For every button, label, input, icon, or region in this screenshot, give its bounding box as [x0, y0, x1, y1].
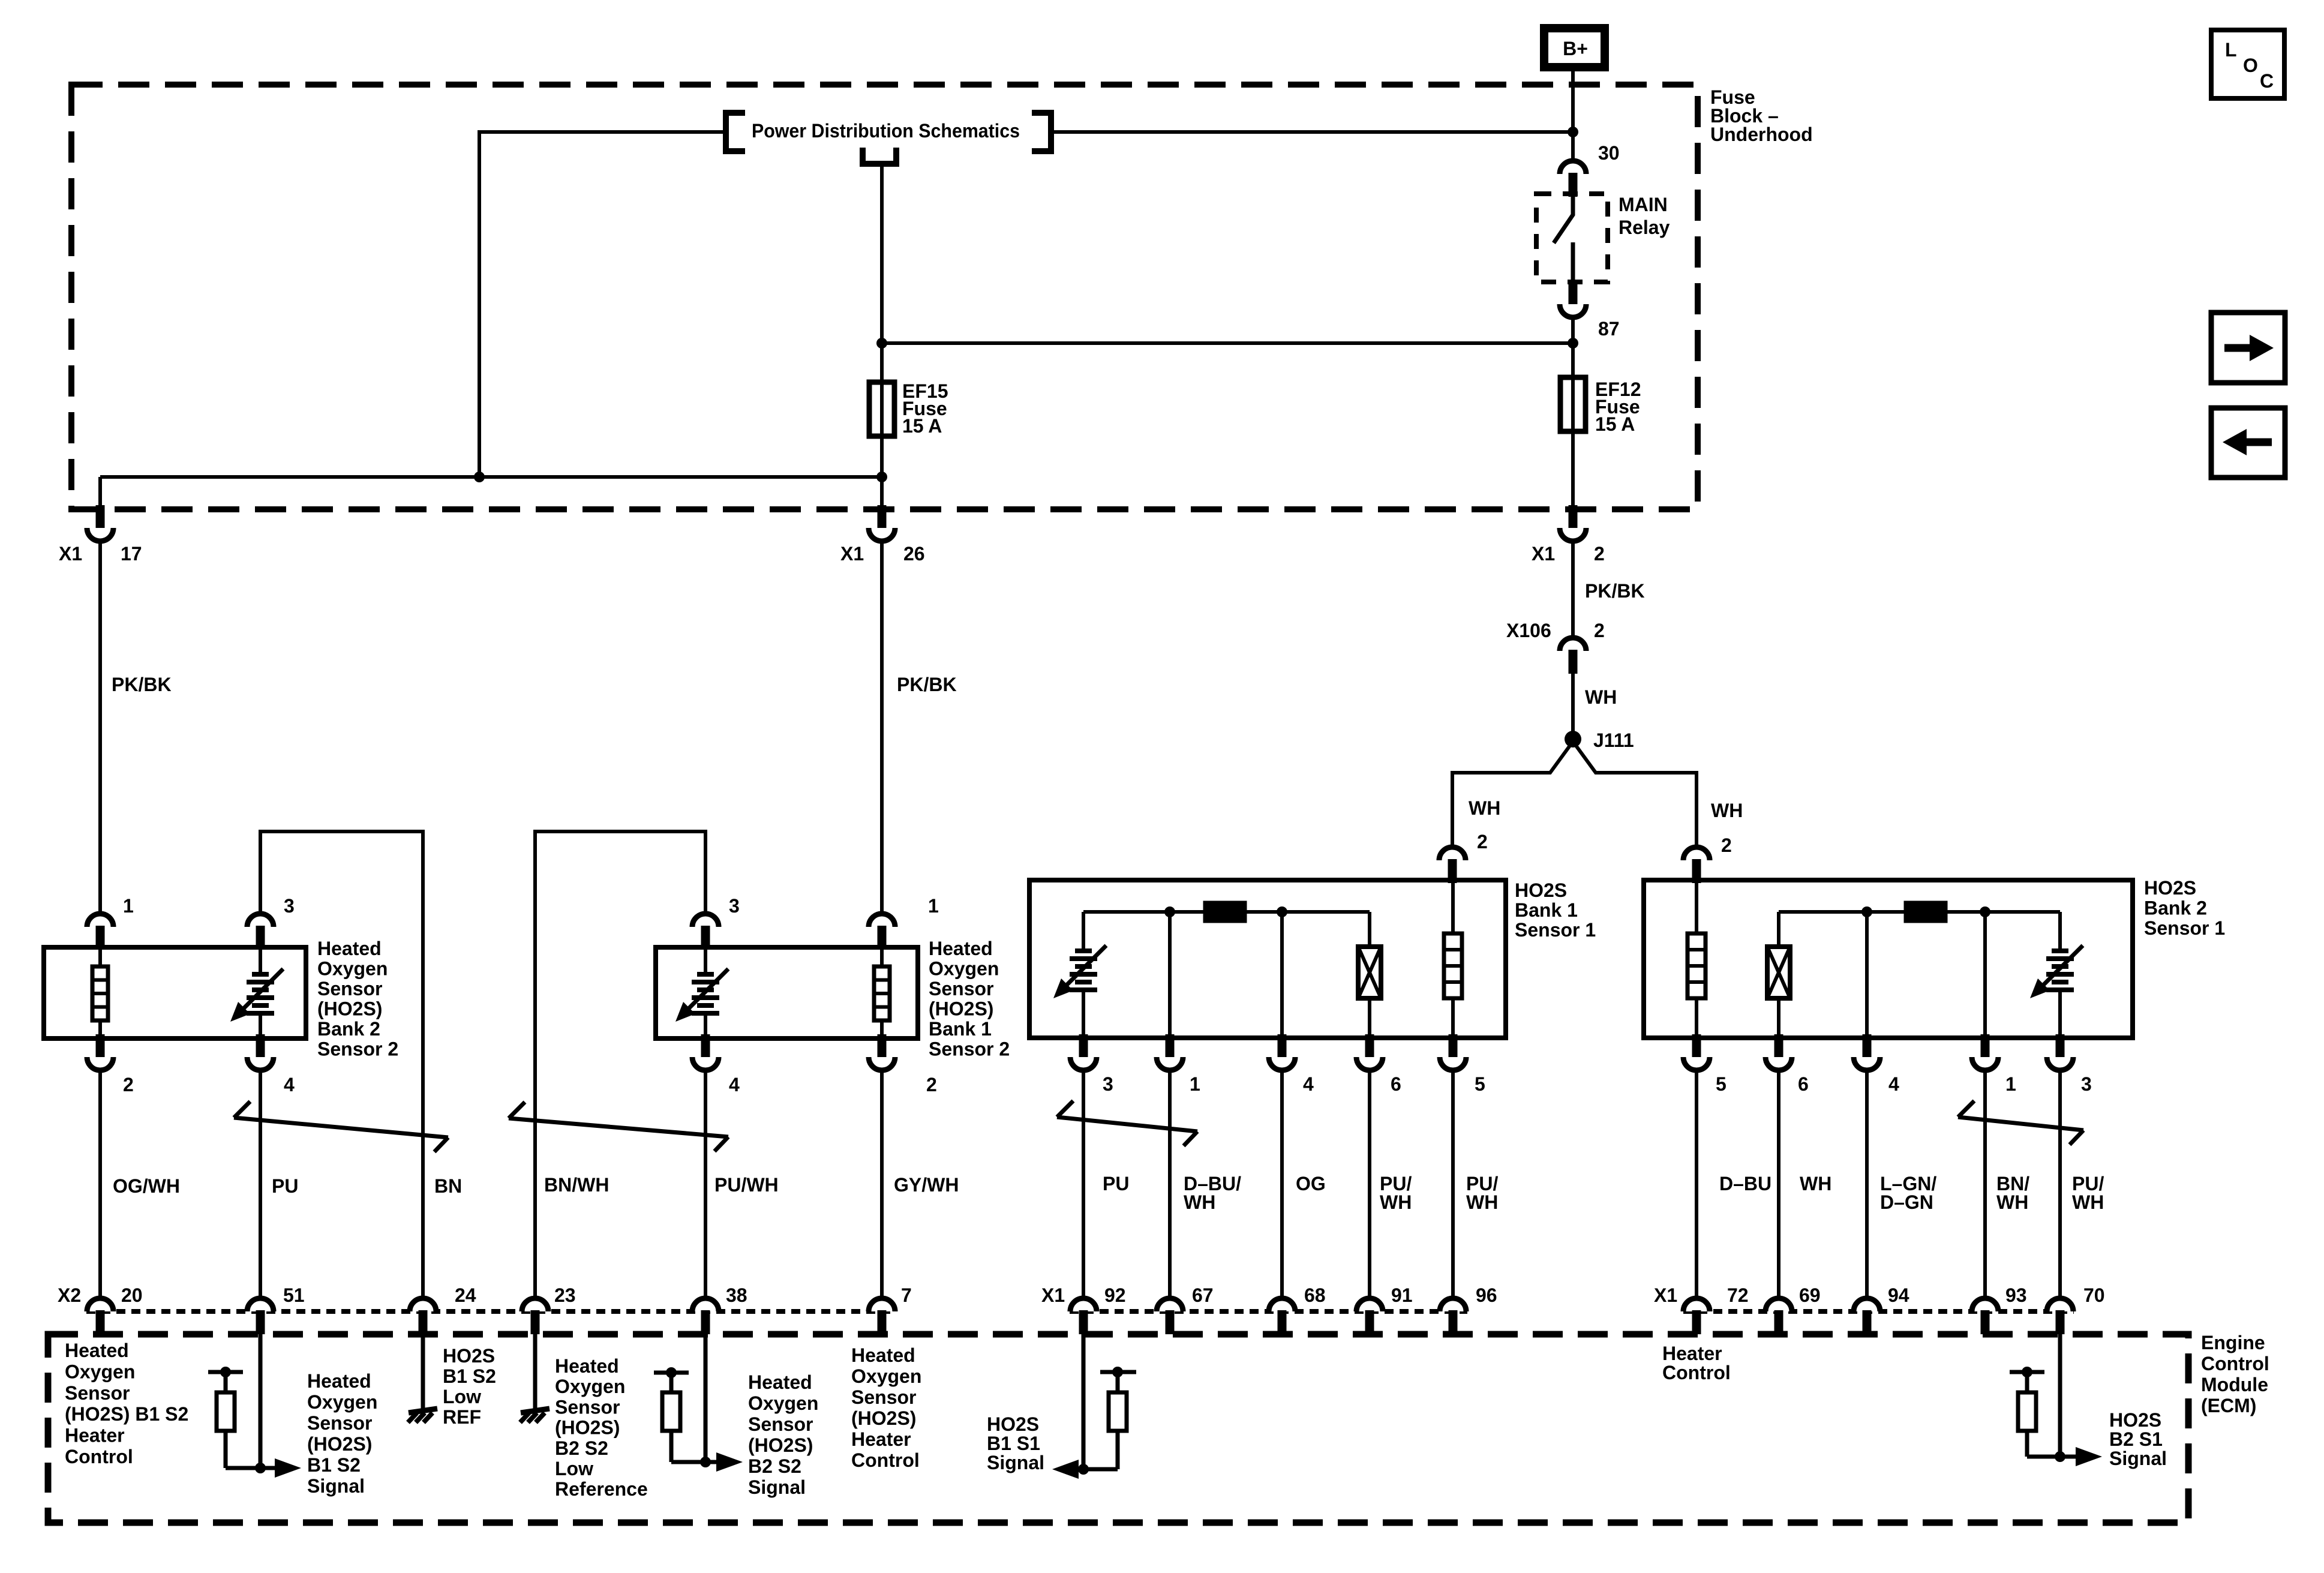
wire PU pin4 to X2 51: [259, 1070, 262, 1299]
svg-text:(HO2S) B1 S2: (HO2S) B1 S2: [65, 1403, 188, 1425]
label PU/WH pin5: [1466, 1173, 1498, 1213]
svg-text:Oxygen: Oxygen: [748, 1392, 818, 1414]
svg-text:17: 17: [121, 543, 142, 565]
svg-text:PU: PU: [272, 1175, 298, 1197]
svg-text:B1 S2: B1 S2: [307, 1454, 361, 1476]
wire PK/BK middle down to sensor pin 1: [880, 541, 884, 915]
connector pin 5 B1S1: [1440, 1034, 1466, 1070]
resistor pin38 circuit: [669, 1373, 674, 1394]
wire from drop bracket down through EF15 to fuse block exit: [880, 164, 884, 509]
twisted pair symbol left pair: [234, 1101, 448, 1152]
svg-text:4: 4: [1303, 1073, 1314, 1095]
label X1 26: [840, 543, 925, 565]
wire PU/WH pin5 to X1 96: [1451, 1070, 1455, 1299]
fuse EF12: [1560, 377, 1586, 431]
svg-text:1: 1: [123, 895, 134, 917]
bracket right of Power Distribution Schematics: [1032, 113, 1051, 151]
svg-text:Engine: Engine: [2201, 1332, 2265, 1353]
node junction power distribution line at B+ wire: [1568, 127, 1578, 137]
svg-text:Sensor: Sensor: [307, 1412, 372, 1434]
connector pin 1 B1S2: [869, 914, 895, 950]
svg-text:Signal: Signal: [2109, 1448, 2167, 1469]
svg-text:Oxygen: Oxygen: [307, 1391, 377, 1413]
wire L-GN/D-GN pin4 to X1 94: [1865, 1070, 1869, 1299]
connector X1 17: [87, 505, 113, 541]
wire pin4 drop B1S1: [1280, 912, 1284, 1038]
connector pin 87 arc: [1560, 281, 1586, 317]
sensor box HO2S Bank 2 Sensor 1: [1644, 880, 2133, 1038]
svg-text:Sensor: Sensor: [65, 1382, 130, 1404]
wire resistor to node pin92: [1083, 1467, 1118, 1472]
connector pin 4 B2S1: [1854, 1034, 1880, 1070]
svg-text:PK/BK: PK/BK: [112, 674, 172, 695]
node rail junction pin92: [1112, 1367, 1123, 1377]
connector pin 6 B1S1: [1356, 1034, 1383, 1070]
svg-text:4: 4: [1888, 1073, 1899, 1095]
wire J111 right branch to HO2S B2S1 pin 2: [1573, 742, 1697, 847]
label D-BU/WH: [1184, 1173, 1241, 1213]
node rail junction pin38: [666, 1367, 677, 1378]
svg-text:Oxygen: Oxygen: [555, 1376, 625, 1397]
connector pin 5 B2S1: [1683, 1034, 1710, 1070]
wire loop pin3 B1S2 up over to BN/WH drop: [535, 831, 705, 1298]
svg-text:D–GN: D–GN: [1880, 1191, 1933, 1213]
twisted pair symbol B2S1 pair: [1958, 1101, 2083, 1145]
svg-text:Sensor: Sensor: [851, 1386, 916, 1408]
svg-text:HO2S: HO2S: [987, 1413, 1039, 1435]
sensor box HO2S Bank 1 Sensor 1: [1029, 880, 1506, 1038]
svg-text:(HO2S): (HO2S): [851, 1407, 916, 1429]
svg-text:2: 2: [1477, 831, 1488, 852]
svg-text:Control: Control: [851, 1449, 920, 1471]
svg-text:Low: Low: [443, 1386, 481, 1407]
node bus junction pin1 B1S1: [1164, 906, 1175, 917]
svg-text:HO2S: HO2S: [1515, 879, 1567, 901]
svg-text:3: 3: [729, 895, 740, 917]
svg-text:Relay: Relay: [1619, 217, 1670, 238]
connector pin 6 B2S1: [1765, 1034, 1792, 1070]
svg-text:4: 4: [729, 1074, 740, 1095]
wire GY/WH pin2 to X2 7: [880, 1070, 884, 1299]
wire PU/WH pin4 to X2 38: [704, 1070, 707, 1299]
svg-text:B2 S1: B2 S1: [2109, 1428, 2163, 1450]
svg-text:Signal: Signal: [748, 1476, 806, 1498]
connector pin 1 B1S1: [1157, 1034, 1183, 1070]
relay switch lower contact: [1571, 242, 1575, 282]
connector X pin 94: [1854, 1298, 1880, 1334]
piezo element B2S1: [1777, 912, 1780, 948]
label HO2S Bank 1 Sensor 1: [1515, 879, 1596, 941]
svg-text:5: 5: [1716, 1073, 1727, 1095]
connector X106 2: [1560, 638, 1586, 674]
svg-text:Heater: Heater: [65, 1425, 125, 1446]
svg-text:WH: WH: [1469, 797, 1500, 819]
svg-text:REF: REF: [443, 1406, 481, 1428]
svg-text:MAIN: MAIN: [1619, 194, 1668, 215]
resistor internal B2S1: [1906, 903, 1945, 921]
svg-text:38: 38: [726, 1284, 747, 1306]
svg-text:GY/WH: GY/WH: [894, 1174, 959, 1196]
svg-text:Heated: Heated: [555, 1355, 619, 1377]
connector pin 3 B1S2: [692, 914, 719, 950]
svg-text:D–BU: D–BU: [1719, 1173, 1771, 1194]
connector X pin 93: [1972, 1298, 1998, 1334]
svg-text:30: 30: [1598, 142, 1620, 164]
label MAIN Relay: [1619, 194, 1670, 238]
svg-text:(HO2S): (HO2S): [317, 998, 382, 1020]
connector pin 2 B1S2: [869, 1034, 895, 1070]
svg-text:PU/WH: PU/WH: [714, 1174, 779, 1196]
svg-text:Module: Module: [2201, 1374, 2268, 1395]
label HO2S B1 S1 Signal text: [987, 1413, 1044, 1473]
svg-text:WH: WH: [1711, 800, 1743, 821]
svg-text:2: 2: [123, 1074, 134, 1095]
connector X pin 20: [87, 1298, 113, 1334]
connector pin 3 B2S2: [247, 914, 274, 950]
ground HO2S B2 S2 low reference: [520, 1409, 550, 1422]
svg-text:20: 20: [121, 1284, 143, 1306]
label PU/WH pin6: [1380, 1173, 1412, 1213]
svg-text:X1: X1: [59, 543, 82, 565]
svg-text:WH: WH: [2072, 1191, 2104, 1213]
svg-text:96: 96: [1476, 1284, 1497, 1306]
svg-text:Power Distribution Schematics: Power Distribution Schematics: [752, 120, 1020, 142]
svg-text:Sensor: Sensor: [929, 978, 993, 999]
svg-text:2: 2: [1594, 543, 1605, 565]
svg-text:Underhood: Underhood: [1710, 124, 1813, 145]
node junction at relay 87 feed: [1568, 338, 1578, 349]
svg-text:92: 92: [1104, 1284, 1126, 1306]
connector pin 2 B1S1: [1439, 847, 1466, 883]
connector pin 30 arc: [1560, 161, 1586, 197]
svg-text:Control: Control: [1662, 1362, 1731, 1383]
svg-text:Heated: Heated: [748, 1371, 812, 1393]
node bus junction pin1 B2S1: [1980, 906, 1990, 917]
svg-text:WH: WH: [1466, 1191, 1498, 1213]
label X1 17: [59, 543, 142, 565]
svg-text:1: 1: [928, 895, 939, 917]
internal bus B1S1: [1083, 910, 1370, 914]
svg-text:X2: X2: [58, 1284, 81, 1306]
svg-text:Sensor 1: Sensor 1: [1515, 919, 1596, 941]
svg-text:Oxygen: Oxygen: [317, 958, 388, 980]
internal bus B2S1: [1779, 910, 2060, 914]
sensing element B1S2 with arrow: [704, 948, 707, 975]
svg-text:Bank 1: Bank 1: [1515, 899, 1578, 921]
svg-text:Heated: Heated: [851, 1344, 915, 1366]
arrow HO2S B2 S1 signal: [2060, 1455, 2077, 1459]
label HO2S B1 S2 Signal text: [307, 1370, 377, 1497]
resistor branch rail pin38: [654, 1371, 689, 1375]
svg-text:91: 91: [1391, 1284, 1413, 1306]
wire OG pin4 to X1 68: [1280, 1070, 1284, 1299]
svg-text:WH: WH: [1585, 686, 1617, 708]
connector row X1 right dotted line: [1683, 1309, 2074, 1314]
svg-text:15 A: 15 A: [1595, 413, 1635, 435]
svg-text:(HO2S): (HO2S): [929, 998, 993, 1020]
svg-text:23: 23: [554, 1284, 576, 1306]
connector X pin 69: [1765, 1298, 1792, 1334]
svg-text:Control: Control: [2201, 1353, 2269, 1374]
connector pin 4 B1S2: [692, 1034, 719, 1070]
wire resistor to node pin70: [2027, 1455, 2060, 1459]
svg-text:Oxygen: Oxygen: [929, 958, 999, 980]
wire PK/BK left down to sensor pin 1: [98, 541, 102, 915]
svg-text:94: 94: [1888, 1284, 1909, 1306]
svg-text:OG: OG: [1296, 1173, 1326, 1194]
svg-text:51: 51: [283, 1284, 305, 1306]
svg-text:3: 3: [1103, 1073, 1113, 1095]
svg-text:Heater: Heater: [851, 1428, 911, 1450]
fuse block - underhood dashed box: [71, 85, 1698, 509]
wire BN/WH pin1 to X1 93: [1983, 1070, 1987, 1299]
connector X pin 70: [2047, 1298, 2073, 1334]
splice J111: [1565, 731, 1581, 748]
wire relay 87 feed to EF15 branch: [882, 341, 1573, 345]
connector X pin 92: [1070, 1298, 1097, 1334]
svg-text:B1 S2: B1 S2: [443, 1365, 496, 1387]
sensing element B1S1 with arrow: [1082, 912, 1085, 952]
label HO2S B2 S2 Signal text: [748, 1371, 818, 1498]
wire pin4 drop B2S1: [1865, 912, 1869, 1038]
svg-text:HO2S: HO2S: [443, 1345, 495, 1367]
svg-text:X106: X106: [1506, 620, 1551, 641]
svg-text:X1: X1: [840, 543, 864, 565]
sensor box HO2S Bank 1 Sensor 2: [656, 947, 918, 1038]
svg-text:Heated: Heated: [307, 1370, 371, 1392]
wire power distribution line left segment with drop to bus: [479, 132, 723, 477]
svg-text:L: L: [2225, 39, 2237, 61]
svg-text:PK/BK: PK/BK: [1585, 580, 1645, 602]
connector pin 2 B2S1: [1683, 847, 1710, 883]
wire power distribution line right segment: [1053, 130, 1573, 134]
svg-text:Sensor 2: Sensor 2: [929, 1038, 1010, 1060]
svg-text:C: C: [2260, 70, 2274, 92]
heater element B1S1 from pin2: [1451, 881, 1455, 935]
connector X1 2: [1560, 505, 1586, 541]
svg-text:WH: WH: [1996, 1191, 2028, 1213]
ECM dashed box: [48, 1334, 2188, 1523]
node rail junction pin51: [220, 1367, 231, 1377]
svg-text:Control: Control: [65, 1446, 133, 1467]
svg-text:PU: PU: [1103, 1173, 1129, 1194]
node bus junction pin4 B2S1: [1861, 906, 1872, 917]
svg-text:Bank 1: Bank 1: [929, 1018, 992, 1040]
resistor branch rail pin92: [1100, 1370, 1136, 1374]
svg-text:BN/WH: BN/WH: [544, 1174, 609, 1196]
resistor pin92 circuit: [1116, 1372, 1120, 1394]
wire left exit drop: [98, 477, 102, 509]
piezo element B1S1: [1368, 912, 1371, 948]
label Heater Control right: [1662, 1343, 1731, 1383]
wire PK/BK right down to X106: [1571, 541, 1575, 639]
wire D-BU pin5 to X1 72: [1695, 1070, 1698, 1299]
label BN/WH B2S1: [1996, 1173, 2029, 1213]
fuse EF15: [869, 382, 894, 436]
svg-text:26: 26: [903, 543, 925, 565]
svg-text:B2 S2: B2 S2: [555, 1437, 608, 1459]
svg-text:5: 5: [1475, 1073, 1485, 1095]
node signal junction pin51: [255, 1463, 266, 1473]
label X1 2: [1532, 543, 1605, 565]
label X106 2: [1506, 620, 1605, 641]
wire pin38 inside ECM: [704, 1320, 708, 1462]
svg-text:BN: BN: [434, 1175, 462, 1197]
wire PU pin3 to X1 92: [1082, 1070, 1085, 1299]
wire pin51 inside ECM: [259, 1320, 263, 1468]
svg-text:1: 1: [2005, 1073, 2016, 1095]
svg-text:2: 2: [1721, 834, 1732, 856]
label HO2S B2 S1 Signal text: [2109, 1409, 2167, 1469]
wire pin70 inside ECM: [2058, 1320, 2062, 1457]
label L-GN/D-GN: [1880, 1173, 1936, 1213]
bracket left of Power Distribution Schematics: [726, 113, 745, 151]
svg-text:X1: X1: [1654, 1284, 1677, 1306]
back arrow box: [2211, 408, 2285, 478]
svg-text:67: 67: [1192, 1284, 1214, 1306]
wire PU/WH pin6 to X1 91: [1368, 1070, 1371, 1299]
wire resistor to node pin38: [671, 1460, 705, 1464]
wire D-BU/WH pin1 to X1 67: [1168, 1070, 1172, 1299]
connector pin 4 B1S1: [1269, 1034, 1295, 1070]
connector X pin 96: [1440, 1298, 1466, 1334]
heater element B2S2: [98, 948, 102, 968]
resistor pin70 circuit: [2025, 1372, 2029, 1394]
label EF15 Fuse 15 A: [902, 380, 948, 437]
wire pin1 drop B1S1: [1168, 912, 1172, 1038]
wire PU/WH pin3 to X1 70: [2058, 1070, 2062, 1299]
svg-text:3: 3: [284, 895, 295, 917]
svg-text:WH: WH: [1380, 1191, 1412, 1213]
arrow HO2S B2 S2 signal: [705, 1460, 719, 1464]
connector X pin 67: [1157, 1298, 1183, 1334]
svg-text:Sensor 2: Sensor 2: [317, 1038, 398, 1060]
label Heated Oxygen Sensor HO2S Bank 1 Sensor 2: [929, 938, 1010, 1060]
node rail junction pin70: [2022, 1367, 2032, 1377]
arrow HO2S B1 S2 signal: [260, 1466, 277, 1470]
svg-text:Sensor: Sensor: [555, 1396, 620, 1418]
svg-text:O: O: [2243, 55, 2258, 76]
ground HO2S B1 S2 low ref: [408, 1409, 437, 1422]
label HO2S Heater Control text: [851, 1344, 921, 1471]
relay MAIN dashed box: [1536, 194, 1608, 282]
label HO2S B1 S2 Heater Control: [65, 1340, 188, 1467]
connector X pin 23: [522, 1298, 548, 1334]
arrow HO2S B1 S1 signal: [1075, 1467, 1083, 1472]
svg-text:2: 2: [1594, 620, 1605, 641]
svg-text:X1: X1: [1041, 1284, 1065, 1306]
svg-text:J111: J111: [1593, 730, 1634, 751]
resistor branch rail pin51: [208, 1370, 243, 1374]
wire WH down to J111: [1571, 671, 1575, 733]
connector row X2 dotted line: [86, 1309, 894, 1314]
svg-text:4: 4: [284, 1074, 295, 1095]
fuse block label: [1710, 86, 1813, 145]
twisted pair symbol B1S1 pair: [1057, 1101, 1197, 1146]
label PU/WH B2S1: [2072, 1173, 2104, 1213]
svg-text:B1 S1: B1 S1: [987, 1433, 1040, 1454]
svg-text:Oxygen: Oxygen: [851, 1365, 921, 1387]
svg-text:68: 68: [1304, 1284, 1326, 1306]
connector X pin 68: [1269, 1298, 1295, 1334]
label Engine Control Module ECM: [2201, 1332, 2269, 1416]
wire pin1 drop B2S1: [1983, 912, 1987, 1038]
wire OG/WH pin2 to X2 20: [98, 1070, 102, 1299]
resistor branch rail pin70: [2010, 1370, 2044, 1374]
svg-text:24: 24: [455, 1284, 476, 1306]
wire loop pin3 B2S2 up over text to BN drop: [260, 831, 423, 1298]
svg-text:Bank 2: Bank 2: [317, 1018, 380, 1040]
resistor internal B1S1: [1205, 903, 1245, 921]
svg-text:Bank 2: Bank 2: [2144, 897, 2207, 919]
connector X pin 72: [1683, 1298, 1710, 1334]
svg-text:HO2S: HO2S: [2144, 877, 2196, 899]
svg-text:Reference: Reference: [555, 1478, 648, 1500]
svg-text:Sensor: Sensor: [748, 1413, 813, 1435]
node bus junction pin4 B1S1: [1277, 906, 1287, 917]
connector X pin 38: [692, 1298, 719, 1334]
label HO2S B1 S2 Low REF: [443, 1345, 496, 1428]
svg-text:(HO2S): (HO2S): [555, 1417, 620, 1439]
svg-text:93: 93: [2005, 1284, 2027, 1306]
wire resistor to node pin51: [226, 1466, 260, 1470]
svg-text:WH: WH: [1800, 1173, 1831, 1194]
svg-text:72: 72: [1727, 1284, 1749, 1306]
LOC reference box: [2211, 30, 2284, 98]
svg-text:Heater: Heater: [1662, 1343, 1722, 1364]
svg-text:(ECM): (ECM): [2201, 1395, 2256, 1416]
label HO2S Bank 2 Sensor 1: [2144, 877, 2225, 939]
connector pin 1 B2S1: [1972, 1034, 1998, 1070]
node junction EF15 wire at bus: [876, 472, 887, 482]
svg-text:OG/WH: OG/WH: [113, 1175, 180, 1197]
svg-text:X1: X1: [1532, 543, 1555, 565]
svg-text:70: 70: [2083, 1284, 2105, 1306]
svg-text:87: 87: [1598, 318, 1620, 340]
svg-text:WH: WH: [1184, 1191, 1215, 1213]
connector pin 3 B1S1: [1070, 1034, 1097, 1070]
connector pin 2 B2S2: [87, 1034, 113, 1070]
svg-text:HO2S: HO2S: [2109, 1409, 2161, 1431]
node junction EF15 wire / relay feed line: [876, 338, 887, 349]
svg-text:Heated: Heated: [317, 938, 382, 959]
connector X pin 51: [247, 1298, 274, 1334]
heater element B2S1 from pin2: [1695, 881, 1698, 935]
svg-text:69: 69: [1799, 1284, 1821, 1306]
connector pin 3 B2S1: [2047, 1034, 2073, 1070]
connector pin 1 B2S2: [87, 914, 113, 950]
label EF12 Fuse 15 A: [1595, 379, 1641, 435]
svg-text:2: 2: [926, 1074, 937, 1095]
svg-text:PK/BK: PK/BK: [897, 674, 957, 695]
label Heated Oxygen Sensor HO2S Bank 2 Sensor 2: [317, 938, 398, 1060]
forward arrow box: [2211, 313, 2285, 383]
node junction bus at x799: [474, 472, 485, 482]
svg-text:Heated: Heated: [65, 1340, 129, 1361]
connector X pin 24: [410, 1298, 436, 1334]
svg-text:Heated: Heated: [929, 938, 993, 959]
svg-text:1: 1: [1190, 1073, 1200, 1095]
sensing element B2S1 with arrow: [2058, 912, 2062, 952]
sensing element B2S2 with arrow: [259, 948, 262, 975]
wire pin92 inside ECM: [1082, 1320, 1086, 1469]
svg-text:B+: B+: [1563, 38, 1588, 59]
connector X pin 91: [1356, 1298, 1383, 1334]
drop bracket under Power Distribution Schematics: [863, 148, 896, 164]
svg-text:Sensor: Sensor: [317, 978, 382, 999]
node signal junction pin70: [2055, 1451, 2065, 1462]
svg-text:15 A: 15 A: [902, 415, 942, 437]
